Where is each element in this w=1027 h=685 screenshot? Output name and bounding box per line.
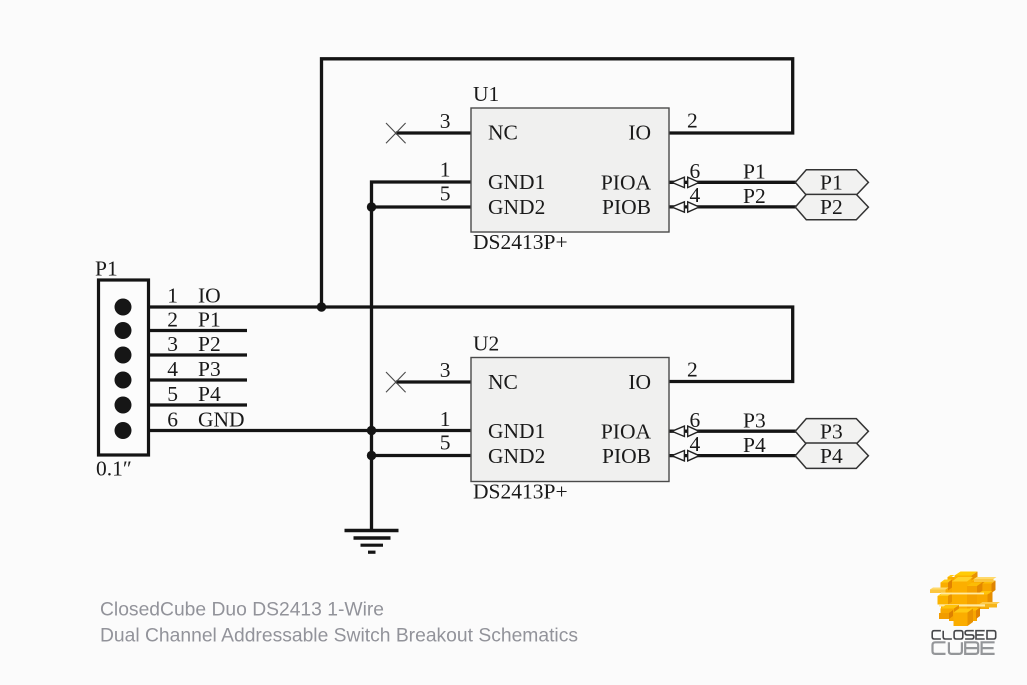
wire U1 GND1: [372, 182, 472, 207]
ground symbol: [345, 531, 399, 553]
U1 PIOA bidirectional arrows: [672, 177, 699, 187]
svg-text:2: 2: [167, 308, 178, 332]
wire P1 pin4 stub: [123, 378, 247, 381]
U2 PIOB bidirectional arrows: [672, 451, 699, 461]
svg-text:DS2413P+: DS2413P+: [473, 230, 568, 254]
svg-text:ClosedCube Duo DS2413 1-Wire: ClosedCube Duo DS2413 1-Wire: [100, 600, 384, 621]
svg-text:5: 5: [167, 382, 178, 406]
svg-text:P4: P4: [743, 433, 766, 457]
junction node U2 GND2: [367, 451, 376, 460]
logo text CLOSED: [932, 631, 996, 639]
svg-text:P3: P3: [743, 409, 766, 433]
U2 PIOA bidirectional arrows: [672, 426, 699, 436]
flag P4: [795, 443, 868, 468]
svg-text:P2: P2: [743, 184, 766, 208]
svg-text:1: 1: [440, 158, 451, 182]
flag P3: [795, 419, 868, 444]
svg-text:PIOA: PIOA: [601, 170, 652, 194]
svg-text:5: 5: [440, 431, 451, 455]
wire P1 pin6 GND to U2 GND1: [123, 429, 471, 432]
svg-text:GND1: GND1: [488, 419, 545, 443]
svg-text:GND2: GND2: [488, 444, 545, 468]
svg-text:GND: GND: [198, 408, 245, 432]
svg-text:P1: P1: [95, 257, 118, 281]
junction node IO: [317, 302, 326, 311]
wire U1 PIOA to flag P1: [668, 181, 800, 184]
connector P1 pin names: [198, 284, 245, 432]
svg-text:U2: U2: [473, 332, 499, 356]
wire top horizontal + verticals to U1 IO: [322, 59, 793, 307]
svg-text:DS2413P+: DS2413P+: [473, 480, 568, 504]
U2 pin names: [488, 370, 651, 468]
flag P2: [795, 194, 868, 219]
wire P1 pin3 stub: [123, 353, 247, 356]
svg-text:P2: P2: [198, 332, 221, 356]
svg-text:PIOA: PIOA: [601, 419, 652, 443]
junction node U1 GND2: [367, 202, 376, 211]
U2 no-connect X on pin 3: [386, 372, 406, 392]
svg-text:IO: IO: [198, 284, 221, 308]
svg-text:P1: P1: [820, 171, 843, 195]
svg-text:IO: IO: [628, 121, 651, 145]
svg-text:1: 1: [440, 407, 451, 431]
wire U1 GND2: [372, 205, 472, 208]
logo cube cluster: [930, 572, 1000, 627]
svg-text:3: 3: [440, 109, 451, 133]
svg-text:P2: P2: [820, 195, 843, 219]
svg-text:5: 5: [440, 182, 451, 206]
svg-text:U1: U1: [473, 82, 499, 106]
svg-text:IO: IO: [628, 370, 651, 394]
wire U1 PIOB to flag P2: [668, 205, 800, 208]
U1 no-connect X on pin 3: [386, 123, 406, 143]
IC U2 body: [471, 358, 669, 482]
svg-text:4: 4: [167, 357, 178, 381]
connector P1 body: [99, 280, 149, 455]
svg-text:1: 1: [167, 284, 178, 308]
svg-text:NC: NC: [488, 121, 518, 145]
svg-text:PIOB: PIOB: [602, 195, 651, 219]
wire P1 pin2 stub: [123, 329, 247, 332]
svg-text:2: 2: [687, 109, 698, 133]
svg-text:0.1″: 0.1″: [96, 457, 132, 481]
svg-text:GND2: GND2: [488, 195, 545, 219]
wire IO net top loop: [123, 59, 800, 530]
svg-text:3: 3: [167, 332, 178, 356]
junction node GND/U2 GND1: [367, 426, 376, 435]
svg-text:P1: P1: [743, 160, 766, 184]
svg-text:P1: P1: [198, 308, 221, 332]
U1 PIOB bidirectional arrows: [672, 202, 699, 212]
flag P1: [795, 170, 868, 195]
svg-text:PIOB: PIOB: [602, 444, 651, 468]
wire P1 pin5 stub: [123, 403, 247, 406]
wire U2 PIOA to flag P3: [668, 430, 800, 433]
svg-text:6: 6: [167, 408, 178, 432]
svg-text:P3: P3: [198, 357, 221, 381]
svg-text:P3: P3: [820, 419, 843, 443]
U2 pin numbers: [440, 358, 701, 457]
wire U1 NC stub: [396, 131, 471, 134]
svg-text:P4: P4: [820, 444, 843, 468]
IC U1 body: [471, 108, 669, 232]
wire GND vertical: [370, 207, 373, 530]
svg-text:2: 2: [687, 358, 698, 382]
svg-text:3: 3: [440, 358, 451, 382]
wire IO horizontal from P1 pin1 to U2 IO: [123, 307, 793, 382]
svg-text:NC: NC: [488, 370, 518, 394]
connector P1 pin circles: [115, 299, 132, 440]
wire U2 PIOB to flag P4: [668, 454, 800, 457]
logo text CUBE: [933, 642, 995, 654]
svg-text:Dual Channel Addressable Switc: Dual Channel Addressable Switch Breakout…: [100, 626, 578, 647]
svg-text:GND1: GND1: [488, 170, 545, 194]
wire U2 NC stub: [396, 380, 471, 383]
svg-text:P4: P4: [198, 382, 221, 406]
connector P1 pin numbers: [167, 284, 178, 432]
U1 pin numbers: [440, 109, 701, 208]
wire U2 GND2: [372, 454, 472, 457]
U1 pin names: [488, 121, 651, 220]
